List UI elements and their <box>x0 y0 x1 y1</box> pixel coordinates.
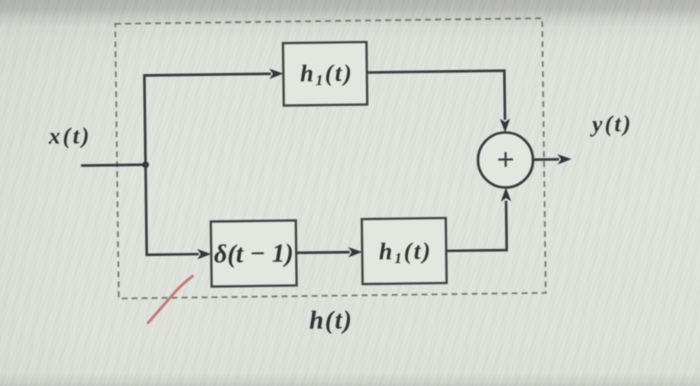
svg-text:h(t): h(t) <box>309 305 353 335</box>
svg-text:δ(t − 1): δ(t − 1) <box>214 238 294 268</box>
svg-text:y(t): y(t) <box>589 111 633 137</box>
svg-text:h1(t): h1(t) <box>379 239 433 268</box>
svg-text:x(t): x(t) <box>48 123 92 149</box>
svg-text:h1(t): h1(t) <box>300 61 354 90</box>
